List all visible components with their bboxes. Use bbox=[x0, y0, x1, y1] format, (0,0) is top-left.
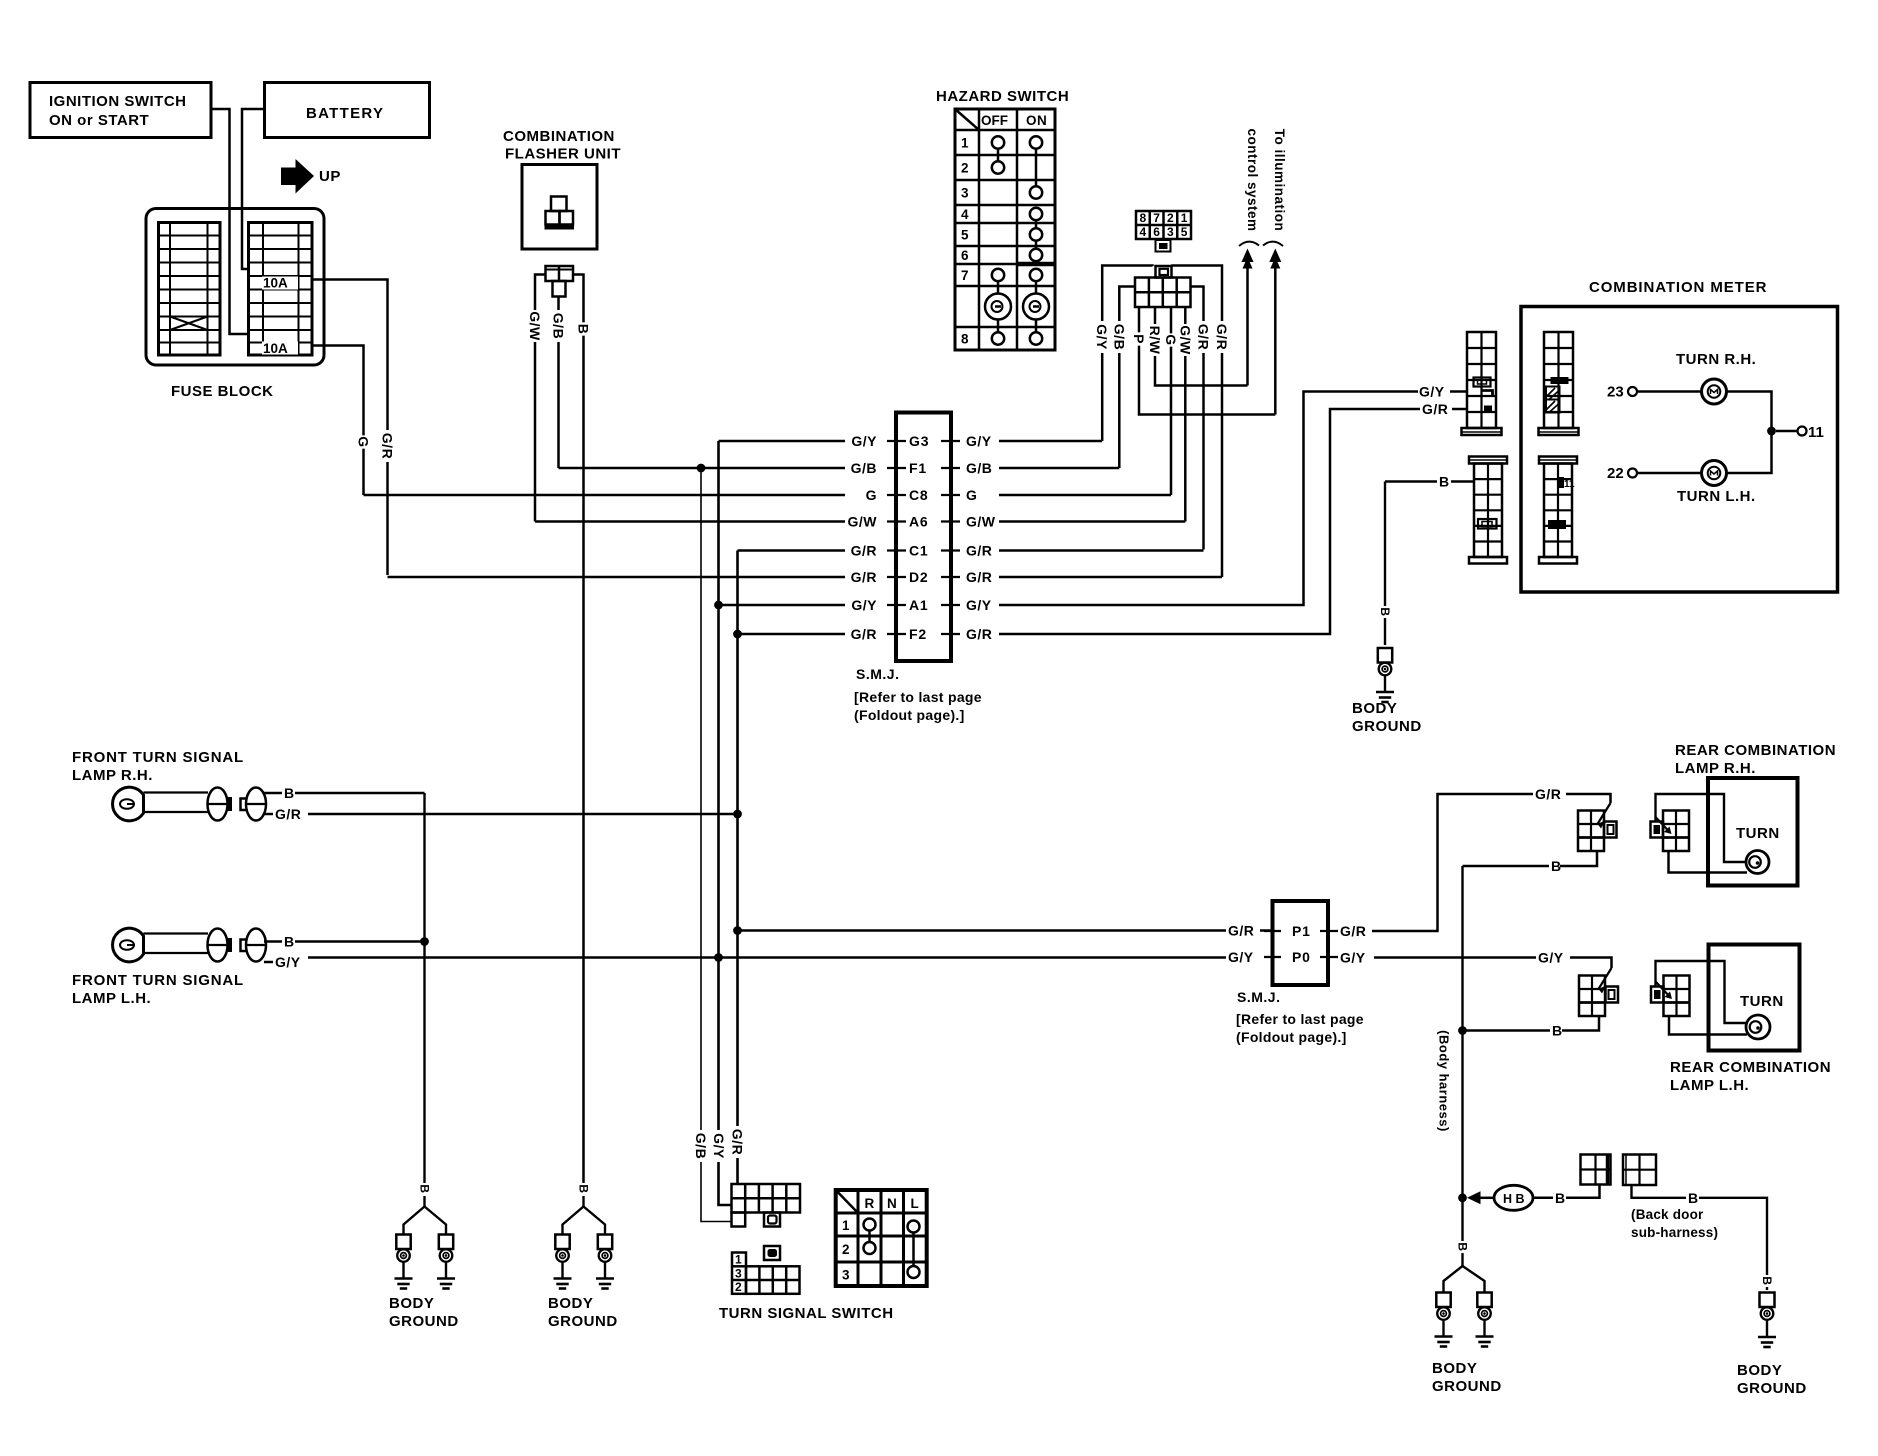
S.M.J. pin D2 row bbox=[887, 576, 906, 578]
wire G/R to SMJ C1 bbox=[738, 549, 846, 552]
hazard OFF contact links bbox=[997, 148, 1000, 162]
svg-text:LAMP R.H.: LAMP R.H. bbox=[72, 767, 153, 784]
svg-text:G/R: G/R bbox=[1214, 324, 1230, 350]
rear combination lamp R.H. box bbox=[1708, 778, 1798, 886]
svg-text:G/W: G/W bbox=[966, 514, 996, 530]
wire turn LH lamp to pin 22 bbox=[1637, 472, 1702, 475]
svg-text:G: G bbox=[1163, 334, 1179, 345]
body harness label bbox=[1437, 1030, 1452, 1132]
wire G/R SMJ C1 to hazard connector right bbox=[1191, 287, 1204, 550]
S.M.J. pin G3 row bbox=[887, 440, 906, 442]
svg-text:P0: P0 bbox=[1292, 949, 1311, 965]
logic table L contacts bbox=[908, 1221, 920, 1233]
turn signal switch connector keyway cell bbox=[732, 1213, 746, 1227]
svg-text:G/Y: G/Y bbox=[1538, 950, 1564, 966]
svg-text:6: 6 bbox=[961, 248, 969, 263]
svg-text:FLASHER UNIT: FLASHER UNIT bbox=[505, 146, 621, 163]
label G/Y turn signal wire bbox=[711, 1130, 727, 1162]
wire SMJ D2 to hazard G/R riser bbox=[999, 576, 1222, 579]
svg-text:3: 3 bbox=[735, 1266, 742, 1280]
svg-text:FRONT TURN SIGNAL: FRONT TURN SIGNAL bbox=[72, 749, 244, 766]
combination flasher unit box bbox=[522, 165, 597, 250]
combination meter box bbox=[1521, 307, 1838, 593]
svg-text:(Foldout page).]: (Foldout page).] bbox=[1236, 1029, 1347, 1045]
svg-text:4: 4 bbox=[961, 207, 969, 222]
wire G/R vertical to turn signal switch bbox=[736, 551, 739, 1185]
wire G/R SMJ D2 to hazard connector top bbox=[1173, 266, 1223, 578]
wire G/Y to SMJ G3 bbox=[719, 440, 846, 443]
wire G to SMJ C8 bbox=[364, 494, 846, 497]
logic table diagonal bbox=[837, 1191, 858, 1213]
svg-text:G/W: G/W bbox=[848, 514, 878, 530]
svg-text:11: 11 bbox=[1564, 479, 1575, 490]
wire fuse to G/R vertical bbox=[312, 280, 388, 576]
meter connector upper inner bbox=[1544, 332, 1573, 428]
svg-text:TURN L.H.: TURN L.H. bbox=[1677, 488, 1756, 505]
svg-text:10A: 10A bbox=[263, 341, 288, 356]
wire SMJ C1 to hazard G/R riser bbox=[999, 549, 1204, 552]
rear RH lamp connector keyway bbox=[1651, 822, 1664, 838]
wire front RH G/R bbox=[264, 813, 273, 816]
wire hazard R/W to illumination bbox=[1155, 307, 1248, 386]
svg-text:(Body harness): (Body harness) bbox=[1437, 1030, 1452, 1132]
svg-text:2: 2 bbox=[1167, 211, 1174, 225]
svg-text:1: 1 bbox=[961, 136, 969, 151]
svg-text:LAMP L.H.: LAMP L.H. bbox=[72, 990, 151, 1007]
S.M.J.2 pin P0 bbox=[1264, 956, 1281, 958]
hazard table header diagonal bbox=[955, 109, 979, 130]
turn signal switch lower keyway bbox=[764, 1246, 780, 1260]
wire node to rear LH B bbox=[1463, 1029, 1551, 1032]
body ground 1 (front lamps) bbox=[418, 1183, 432, 1195]
label G/W flasher wire bbox=[527, 310, 543, 342]
svg-text:B: B bbox=[577, 1184, 591, 1193]
svg-text:GROUND: GROUND bbox=[1432, 1378, 1502, 1395]
svg-text:(Foldout page).]: (Foldout page).] bbox=[854, 707, 965, 723]
svg-text:LAMP L.H.: LAMP L.H. bbox=[1670, 1077, 1749, 1094]
svg-text:G/R: G/R bbox=[730, 1129, 746, 1155]
wire SMJ F1 to hazard G/B riser bbox=[999, 467, 1119, 470]
hazard ON contact links bbox=[1035, 148, 1038, 187]
hazard table heavy segment under row6 ON bbox=[1017, 262, 1055, 267]
label P hazard bbox=[1131, 332, 1147, 345]
svg-text:S.M.J.: S.M.J. bbox=[1237, 989, 1280, 1005]
wire ignition switch to fuse block bbox=[211, 109, 249, 334]
svg-text:BODY: BODY bbox=[1737, 1362, 1782, 1379]
svg-text:7: 7 bbox=[961, 268, 969, 283]
wire flasher G/W bbox=[535, 275, 546, 522]
svg-text:B: B bbox=[1760, 1276, 1774, 1285]
svg-text:TURN R.H.: TURN R.H. bbox=[1676, 351, 1756, 368]
rear RH connector arrow bbox=[1598, 803, 1611, 824]
rear LH lamp connector bbox=[1664, 976, 1690, 1017]
turn L.H. indicator lamp bbox=[1702, 461, 1727, 486]
wire front LH G/Y to SMJ2 P0 bbox=[264, 961, 273, 964]
svg-text:7: 7 bbox=[1153, 211, 1160, 225]
svg-text:TURN: TURN bbox=[1740, 993, 1784, 1010]
svg-text:sub-harness): sub-harness) bbox=[1631, 1225, 1718, 1240]
wire B to body ground A bbox=[1384, 482, 1386, 646]
wire node to turn LH lamp bbox=[1727, 435, 1772, 473]
label G/R hazard right outer bbox=[1214, 321, 1230, 353]
wire front LH B bbox=[264, 940, 282, 943]
S.M.J. pin A6 row bbox=[887, 520, 906, 522]
wire fuse to G vertical bbox=[312, 346, 364, 496]
label R/W hazard bbox=[1147, 324, 1163, 356]
svg-text:G/R: G/R bbox=[966, 543, 992, 559]
wire node to pin 11 bbox=[1776, 430, 1798, 433]
meter connector lower inner bbox=[1539, 457, 1577, 464]
rear LH lamp connector keyway bbox=[1651, 987, 1664, 1003]
node F1 G/B junction bbox=[697, 464, 706, 473]
svg-text:G/R: G/R bbox=[1535, 786, 1561, 802]
wire G/B SMJ F1 to hazard connector bbox=[1119, 287, 1135, 469]
svg-text:2: 2 bbox=[735, 1280, 742, 1294]
wire rear LH lamp interior bbox=[1656, 961, 1747, 1023]
wire G/R to SMJ D2 bbox=[388, 576, 846, 579]
svg-text:OFF: OFF bbox=[981, 113, 1008, 128]
node meter 11 junction bbox=[1767, 427, 1776, 436]
flasher unit relay icon bbox=[551, 197, 567, 212]
wire rear RH lamp interior bbox=[1656, 794, 1747, 862]
hazard switch table grid bbox=[955, 109, 1055, 350]
svg-text:G/R: G/R bbox=[1340, 923, 1366, 939]
svg-text:22: 22 bbox=[1607, 465, 1624, 482]
illumination brace bbox=[1239, 242, 1259, 246]
wire SMJ G3 to hazard G/Y riser bbox=[999, 440, 1102, 443]
label G on fuse wire bbox=[356, 435, 372, 448]
rear combination lamp L.H. box bbox=[1709, 945, 1800, 1051]
S.M.J. pin F2 row bbox=[887, 633, 906, 635]
svg-text:ON: ON bbox=[1026, 113, 1047, 128]
svg-text:23: 23 bbox=[1607, 384, 1624, 401]
svg-text:A1: A1 bbox=[909, 597, 929, 613]
svg-text:A6: A6 bbox=[909, 514, 929, 530]
wire G/Y to SMJ A1 bbox=[719, 604, 846, 607]
svg-text:BODY: BODY bbox=[389, 1295, 434, 1312]
svg-text:GROUND: GROUND bbox=[548, 1313, 618, 1330]
logic table R contacts bbox=[864, 1219, 876, 1231]
svg-text:B: B bbox=[1456, 1242, 1470, 1251]
turn R.H. indicator lamp bbox=[1702, 379, 1727, 404]
HB connector arrow bbox=[1467, 1191, 1481, 1204]
svg-text:HAZARD SWITCH: HAZARD SWITCH bbox=[936, 88, 1069, 105]
svg-text:TURN: TURN bbox=[1736, 825, 1780, 842]
wire G/Y vertical to turn signal switch bbox=[719, 441, 732, 1205]
node front RH G/R junction bbox=[733, 810, 742, 819]
wire G/R SMJ F2 net to SMJ2 P1 bbox=[738, 929, 1227, 932]
svg-text:G/Y: G/Y bbox=[851, 433, 877, 449]
wire battery to fuse block bbox=[242, 109, 265, 269]
rear LH connector arrow bbox=[1599, 968, 1612, 989]
hazard contacts OFF column bbox=[992, 136, 1004, 148]
svg-text:G/R: G/R bbox=[851, 569, 877, 585]
wire 23 to turn RH lamp bbox=[1637, 390, 1702, 393]
body ground 4 (back door) bbox=[1760, 1275, 1774, 1287]
wire B into meter lower connector bbox=[1385, 480, 1437, 483]
svg-text:B: B bbox=[576, 324, 592, 335]
wire flasher G/B bbox=[557, 297, 560, 469]
wire turn RH lamp to node 11 bbox=[1727, 392, 1772, 432]
svg-text:3: 3 bbox=[842, 1268, 850, 1283]
back door connector B bbox=[1623, 1155, 1656, 1186]
label G/R on fuse wire bbox=[380, 430, 396, 462]
svg-text:2: 2 bbox=[961, 161, 969, 176]
svg-text:FUSE BLOCK: FUSE BLOCK bbox=[171, 383, 274, 400]
svg-text:F1: F1 bbox=[909, 460, 927, 476]
front turn signal lamp R.H. bbox=[113, 787, 144, 821]
svg-text:REAR COMBINATION: REAR COMBINATION bbox=[1675, 742, 1836, 759]
wire rear RH lamp connector to lamp bbox=[1669, 851, 1748, 873]
rear RH lamp connector bbox=[1663, 811, 1689, 852]
svg-text:6: 6 bbox=[1153, 225, 1160, 239]
wire HB to back door connector bbox=[1533, 1197, 1553, 1200]
svg-text:G/B: G/B bbox=[851, 460, 877, 476]
wire G/B vertical to turn signal switch bbox=[701, 468, 732, 1222]
fuse block outline bbox=[146, 209, 324, 366]
wire G/B to SMJ F1 bbox=[559, 467, 846, 470]
label G/R hazard right inner bbox=[1196, 321, 1212, 353]
svg-text:control system: control system bbox=[1245, 128, 1260, 231]
hazard illumination lamp OFF bbox=[985, 294, 1011, 320]
svg-text:B: B bbox=[418, 1184, 432, 1193]
label G/W hazard bbox=[1177, 324, 1193, 356]
label G/B flasher wire bbox=[551, 310, 567, 342]
S.M.J. pin C8 row bbox=[887, 494, 906, 496]
wire G/W to SMJ A6 bbox=[535, 520, 845, 523]
front turn signal lamp L.H. bbox=[113, 928, 144, 962]
S.M.J. 2 connector box bbox=[1273, 901, 1329, 985]
turn signal switch connector keyway D bbox=[764, 1213, 780, 1227]
svg-text:G/Y: G/Y bbox=[966, 597, 992, 613]
svg-text:G/W: G/W bbox=[527, 311, 543, 341]
S.M.J.2 pin P1 bbox=[1264, 930, 1281, 932]
body ground A terminal bbox=[1378, 648, 1392, 663]
svg-text:BODY: BODY bbox=[548, 1295, 593, 1312]
svg-text:N: N bbox=[887, 1196, 897, 1211]
wire rear RH connector to B bbox=[1560, 851, 1597, 866]
svg-text:C1: C1 bbox=[909, 543, 929, 559]
rear RH turn lamp bbox=[1746, 851, 1769, 874]
svg-text:G/R: G/R bbox=[380, 433, 396, 459]
node front B junction bbox=[420, 937, 429, 946]
svg-text:B: B bbox=[1551, 858, 1562, 874]
rear LH lamp connector arrow bbox=[1656, 982, 1671, 998]
label G/B hazard bbox=[1111, 321, 1127, 353]
back door connector A bbox=[1581, 1155, 1611, 1185]
svg-text:IGNITION SWITCH: IGNITION SWITCH bbox=[49, 93, 187, 110]
svg-text:8: 8 bbox=[1140, 211, 1147, 225]
svg-text:G/B: G/B bbox=[693, 1133, 709, 1159]
S.M.J. pin A1 row bbox=[887, 604, 906, 606]
wire SMJ A6 to hazard G/W riser bbox=[999, 520, 1185, 523]
svg-text:B: B bbox=[1688, 1190, 1699, 1206]
wire SMJ2 P0 G/Y continues bbox=[1337, 956, 1338, 959]
UP direction arrow bbox=[281, 159, 314, 194]
hazard connector keyway D bbox=[1156, 266, 1172, 278]
svg-text:10A: 10A bbox=[263, 276, 288, 291]
svg-text:C8: C8 bbox=[909, 487, 929, 503]
svg-text:G/R: G/R bbox=[1196, 324, 1212, 350]
svg-text:G/B: G/B bbox=[966, 460, 992, 476]
svg-text:G/Y: G/Y bbox=[1094, 324, 1110, 350]
svg-text:B: B bbox=[1555, 1190, 1566, 1206]
svg-text:4: 4 bbox=[1140, 225, 1147, 239]
node G/R P1 junction bbox=[733, 926, 742, 935]
svg-text:G/Y: G/Y bbox=[1419, 384, 1445, 400]
svg-text:G: G bbox=[866, 487, 877, 503]
svg-text:G/Y: G/Y bbox=[275, 954, 301, 970]
wire SMJ C8 to hazard G riser bbox=[999, 494, 1171, 497]
S.M.J. connector box bbox=[896, 413, 951, 662]
hazard contacts ON column bbox=[1030, 136, 1042, 148]
wire SMJ F2 to combination meter G/R bbox=[999, 409, 1420, 634]
hazard illumination lamp ON bbox=[1023, 294, 1049, 320]
svg-text:8: 8 bbox=[961, 332, 969, 347]
svg-text:G/Y: G/Y bbox=[1340, 950, 1366, 966]
svg-text:3: 3 bbox=[1167, 225, 1174, 239]
label G hazard bbox=[1163, 333, 1179, 346]
rear RH harness connector bbox=[1578, 811, 1604, 852]
svg-text:BATTERY: BATTERY bbox=[306, 105, 384, 122]
meter connector upper outer bbox=[1467, 332, 1496, 428]
label G/R turn signal wire bbox=[730, 1126, 746, 1158]
turn signal switch connector upper bbox=[732, 1184, 801, 1213]
meter pin 22 bbox=[1628, 469, 1637, 478]
label G/B turn signal wire bbox=[693, 1130, 709, 1162]
svg-text:B: B bbox=[1378, 607, 1392, 616]
svg-text:F2: F2 bbox=[909, 626, 927, 642]
flasher connector bbox=[546, 266, 574, 281]
wire front lamps B vertical bbox=[423, 793, 425, 1183]
battery box bbox=[265, 83, 430, 138]
svg-text:GROUND: GROUND bbox=[1737, 1380, 1807, 1397]
svg-text:BODY: BODY bbox=[1352, 700, 1397, 717]
label B flasher wire bbox=[576, 322, 592, 335]
svg-text:R: R bbox=[865, 1196, 875, 1211]
svg-text:G/R: G/R bbox=[851, 626, 877, 642]
wire SMJ A1 to combination meter G/Y bbox=[999, 392, 1418, 606]
svg-text:TURN SIGNAL SWITCH: TURN SIGNAL SWITCH bbox=[719, 1305, 894, 1322]
hazard pinout key slot bbox=[1156, 240, 1171, 252]
svg-text:P: P bbox=[1131, 334, 1147, 344]
fuse block left fuse strip bbox=[159, 223, 221, 356]
svg-text:ON or START: ON or START bbox=[49, 112, 149, 129]
wire flasher B to body ground bbox=[573, 275, 584, 1184]
wire G/R to SMJ F2 bbox=[738, 633, 846, 636]
illumination arrow 2 bbox=[1274, 262, 1277, 415]
svg-text:1: 1 bbox=[842, 1218, 850, 1233]
blown fuse X mark bbox=[170, 317, 208, 331]
turn signal switch connector lower bbox=[732, 1253, 746, 1294]
svg-text:R/W: R/W bbox=[1147, 326, 1163, 355]
svg-text:FRONT TURN SIGNAL: FRONT TURN SIGNAL bbox=[72, 972, 244, 989]
node B rear junction bbox=[1458, 1026, 1467, 1035]
svg-text:G/Y: G/Y bbox=[711, 1133, 727, 1159]
svg-text:B: B bbox=[1439, 474, 1450, 490]
svg-text:G/B: G/B bbox=[1111, 324, 1127, 350]
ignition switch box bbox=[30, 83, 211, 138]
svg-text:B: B bbox=[284, 785, 295, 801]
svg-text:11: 11 bbox=[1808, 424, 1824, 441]
svg-text:G/B: G/B bbox=[551, 313, 567, 339]
svg-text:5: 5 bbox=[961, 228, 969, 243]
wire rear LH lamp connector to lamp bbox=[1669, 1017, 1747, 1035]
svg-text:G/R: G/R bbox=[275, 806, 301, 822]
svg-text:1: 1 bbox=[1181, 211, 1188, 225]
node A1 G/Y junction bbox=[714, 601, 723, 610]
svg-text:COMBINATION METER: COMBINATION METER bbox=[1589, 279, 1767, 296]
rear RH lamp connector arrow bbox=[1656, 817, 1671, 833]
svg-text:G/R: G/R bbox=[966, 569, 992, 585]
svg-text:(Back door: (Back door bbox=[1631, 1207, 1704, 1222]
to illumination control system note bbox=[1272, 129, 1287, 232]
fuse block right fuse strip bbox=[249, 223, 313, 356]
wire hazard G to SMJ C8 bbox=[1170, 307, 1173, 495]
fuse 10A upper label bbox=[262, 277, 298, 290]
node F2 G/R junction bbox=[733, 630, 742, 639]
svg-text:G/R: G/R bbox=[1228, 923, 1254, 939]
svg-text:To illumination: To illumination bbox=[1272, 129, 1287, 232]
svg-text:B: B bbox=[1552, 1023, 1563, 1039]
hazard switch connector body bbox=[1135, 278, 1191, 308]
svg-text:2: 2 bbox=[842, 1242, 850, 1257]
svg-text:UP: UP bbox=[319, 168, 341, 185]
wire body harness B vertical bbox=[1461, 866, 1463, 1266]
svg-text:[Refer to last page: [Refer to last page bbox=[854, 689, 982, 705]
svg-text:G/Y: G/Y bbox=[851, 597, 877, 613]
wire hazard P to illumination bbox=[1139, 307, 1275, 415]
wire back door connector B to ground bbox=[1632, 1185, 1687, 1198]
turn signal switch logic table bbox=[836, 1190, 927, 1286]
svg-text:D2: D2 bbox=[909, 569, 929, 585]
body ground 2 (flasher) bbox=[577, 1183, 591, 1195]
svg-text:G/W: G/W bbox=[1177, 325, 1193, 355]
svg-text:5: 5 bbox=[1181, 225, 1188, 239]
svg-text:G/R: G/R bbox=[851, 543, 877, 559]
svg-text:GROUND: GROUND bbox=[1352, 718, 1422, 735]
rear LH turn lamp bbox=[1746, 1015, 1770, 1039]
svg-text:G/R: G/R bbox=[1422, 401, 1448, 417]
node front LH G/Y junction bbox=[714, 953, 723, 962]
svg-text:L: L bbox=[911, 1196, 920, 1211]
svg-text:BODY: BODY bbox=[1432, 1360, 1477, 1377]
svg-text:REAR COMBINATION: REAR COMBINATION bbox=[1670, 1059, 1831, 1076]
svg-text:3: 3 bbox=[961, 186, 969, 201]
svg-text:G/Y: G/Y bbox=[966, 433, 992, 449]
svg-text:COMBINATION: COMBINATION bbox=[503, 128, 615, 145]
svg-text:[Refer to last page: [Refer to last page bbox=[1236, 1011, 1364, 1027]
wire G/Y SMJ G3 to hazard connector bbox=[1102, 266, 1152, 442]
illumination arrow 1 bbox=[1246, 262, 1249, 386]
fuse 10A lower label bbox=[262, 342, 298, 355]
svg-text:P1: P1 bbox=[1292, 923, 1311, 939]
S.M.J. pin C1 row bbox=[887, 549, 906, 551]
wire front RH B bbox=[264, 792, 282, 795]
body ground 3 (rear harness) bbox=[1456, 1241, 1470, 1253]
wire SMJ2 P1 G/R to rear RH connector bbox=[1337, 930, 1338, 933]
svg-text:1: 1 bbox=[735, 1253, 742, 1267]
wire hazard G/W to SMJ A6 bbox=[1184, 307, 1187, 522]
svg-text:S.M.J.: S.M.J. bbox=[856, 666, 899, 682]
svg-text:H B: H B bbox=[1503, 1192, 1525, 1206]
svg-text:G: G bbox=[966, 487, 977, 503]
rear LH harness connector bbox=[1579, 976, 1605, 1017]
label G/Y hazard bbox=[1094, 321, 1110, 353]
S.M.J. pin F1 row bbox=[887, 467, 906, 469]
label B body ground A bbox=[1378, 606, 1392, 618]
meter connector lower outer bbox=[1469, 457, 1507, 464]
